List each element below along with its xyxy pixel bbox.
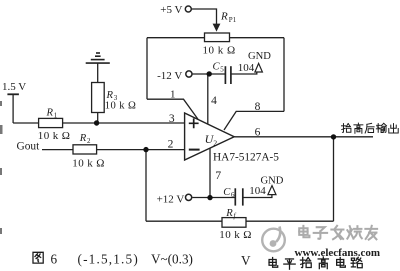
svg-text:10 k Ω: 10 k Ω <box>38 130 71 142</box>
svg-text:Gout: Gout <box>17 140 41 152</box>
wire pin2 node drop <box>145 150 147 222</box>
node A junction R1/R3/pin3 <box>94 120 99 125</box>
svg-text:R: R <box>220 11 228 23</box>
wire right drop to pin8 <box>283 38 285 112</box>
potentiometer RP1 <box>205 33 230 42</box>
wire pin 8 lead <box>224 111 284 130</box>
svg-text:104: 104 <box>249 185 266 197</box>
label output 抬高后输出 <box>341 123 398 133</box>
svg-text:1: 1 <box>54 112 58 120</box>
svg-text:10 k Ω: 10 k Ω <box>203 45 236 57</box>
resistor Rf <box>222 218 246 228</box>
svg-text:7: 7 <box>215 170 221 182</box>
node -12V junction <box>207 71 212 76</box>
svg-text:6: 6 <box>231 191 235 199</box>
terminal bar 1.5V <box>7 93 19 95</box>
svg-text:GND: GND <box>261 175 284 186</box>
wire +5V feed <box>191 9 216 24</box>
svg-text:(-1.5,1.5): (-1.5,1.5) <box>78 251 139 266</box>
svg-text:V: V <box>241 253 251 268</box>
svg-text:5: 5 <box>220 66 224 74</box>
wire output drop <box>333 137 335 221</box>
resistor R1 <box>39 118 63 127</box>
wire R3 to node A <box>97 113 99 124</box>
watermark logo <box>262 227 285 252</box>
node output junction <box>331 134 336 139</box>
terminal -12V <box>186 71 192 77</box>
svg-text:1: 1 <box>170 89 176 101</box>
svg-text:1.5 V: 1.5 V <box>2 81 26 93</box>
svg-text:10 k Ω: 10 k Ω <box>219 229 252 241</box>
svg-text:3: 3 <box>169 113 175 125</box>
svg-text:V~(0.3): V~(0.3) <box>151 251 193 266</box>
caption 电平抬高电路 <box>269 257 362 269</box>
svg-text:www.elecfans.com: www.elecfans.com <box>295 247 381 259</box>
svg-text:R: R <box>79 133 87 144</box>
capacitor C5 <box>225 66 231 84</box>
svg-text:8: 8 <box>255 101 261 113</box>
svg-text:10 k Ω: 10 k Ω <box>105 100 136 111</box>
ground earth symbol <box>86 53 110 63</box>
wire pin 7 <box>209 148 211 197</box>
svg-text:R: R <box>106 90 114 101</box>
wire C6 to GND <box>243 195 272 198</box>
svg-text:+5 V: +5 V <box>160 4 182 16</box>
wire feedback bottom <box>146 220 334 222</box>
svg-text:6: 6 <box>51 251 58 266</box>
wire 1.5V drop <box>12 94 14 123</box>
wire -12V to C5 <box>192 73 225 75</box>
terminal +12V <box>186 194 192 200</box>
wire pin 4 <box>207 74 209 124</box>
wire Gout / R2 / pin2 line <box>42 149 185 151</box>
svg-text:P1: P1 <box>229 16 237 24</box>
terminal +5V <box>185 6 191 12</box>
svg-text:2: 2 <box>213 138 217 147</box>
svg-text:+12 V: +12 V <box>157 193 185 205</box>
wire ground to R3 <box>97 64 99 83</box>
wire +12V to C6 <box>192 197 235 199</box>
GND triangle bottom <box>268 186 276 195</box>
wire pin 1 lead <box>147 99 198 119</box>
watermark 电子发烧友 <box>299 226 377 240</box>
capacitor C6 <box>235 188 243 205</box>
svg-text:2: 2 <box>87 137 91 145</box>
wire R1 / pin3 line <box>13 122 184 124</box>
scan edge smudges <box>0 101 3 234</box>
node +12V junction <box>207 195 212 200</box>
svg-text:-12 V: -12 V <box>157 70 182 82</box>
resistor R3 <box>92 83 105 113</box>
svg-text:R: R <box>225 208 233 219</box>
resistor R2 <box>73 145 97 154</box>
caption 图 6 <box>33 252 43 263</box>
wire top rail pot <box>147 37 284 39</box>
wire C5 to GND <box>231 72 257 74</box>
node B junction R2/feedback <box>143 147 148 152</box>
svg-text:2: 2 <box>168 138 174 150</box>
wire output pin 6 <box>234 136 373 138</box>
svg-text:4: 4 <box>211 95 217 107</box>
svg-text:R: R <box>46 108 54 119</box>
svg-text:GND: GND <box>248 51 271 62</box>
svg-text:104: 104 <box>238 62 255 74</box>
arrow wiper RP1 <box>213 24 221 32</box>
svg-text:10 k Ω: 10 k Ω <box>72 157 105 169</box>
wire left drop to pin1 <box>146 38 148 99</box>
svg-text:6: 6 <box>255 126 261 138</box>
GND triangle top <box>255 63 263 72</box>
op-amp U2 <box>185 113 235 160</box>
svg-text:HA7-5127A-5: HA7-5127A-5 <box>213 151 279 163</box>
